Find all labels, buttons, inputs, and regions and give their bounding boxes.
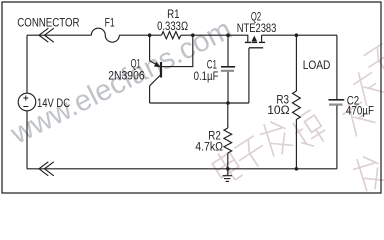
- wire R3 to bottom rail: [295, 120, 297, 169]
- wire Q2 drain to output node: [262, 34, 337, 36]
- junction node A R1 left: [148, 33, 152, 37]
- junction node B R1 right: [191, 33, 195, 37]
- svg-text:0.1µF: 0.1µF: [194, 69, 219, 83]
- wire right branch down to C2: [336, 35, 338, 99]
- wire R2 to bottom rail: [227, 153, 229, 169]
- wire R1 to Q2 source: [181, 34, 248, 36]
- watermark chinese characters diagonal run: [209, 95, 376, 185]
- svg-text:F1: F1: [105, 15, 115, 29]
- wire fuse to node A: [119, 34, 161, 36]
- fuse F1: [91, 28, 119, 42]
- svg-text:2N3906: 2N3906: [108, 68, 144, 82]
- transistor Q1 emitter arrow: [154, 62, 161, 67]
- connector input arrow top: [39, 28, 54, 42]
- wire bottom rail: [27, 168, 337, 170]
- wire C2 to bottom rail: [336, 105, 338, 169]
- watermark chinese characters right edge partials: [349, 42, 384, 194]
- resistor R1: [162, 32, 181, 39]
- svg-text:4.7kΩ: 4.7kΩ: [195, 140, 223, 154]
- svg-text:10Ω: 10Ω: [267, 103, 290, 117]
- svg-text:NTE2383: NTE2383: [237, 21, 277, 35]
- ground: [223, 169, 233, 182]
- transistor Q1 collector lead: [150, 75, 161, 104]
- wire left branch down to source: [26, 35, 28, 93]
- wire node B down to C1: [227, 35, 229, 66]
- svg-text:LOAD: LOAD: [303, 58, 331, 72]
- capacitor C1: [221, 67, 235, 71]
- wire Q2 gate lead down: [248, 48, 250, 103]
- source V1 14V DC: [18, 93, 36, 111]
- wire output node down to R3: [295, 35, 297, 91]
- junction C1 bottom rail: [226, 101, 230, 105]
- wire lower rail collector to gate: [150, 102, 249, 104]
- junction C1 top: [226, 33, 230, 37]
- transistor Q1 emitter lead: [150, 35, 161, 67]
- wire lower rail down to R2: [227, 103, 229, 128]
- svg-text:CONNECTOR: CONNECTOR: [17, 15, 79, 29]
- connector return arrow bottom: [39, 162, 54, 176]
- transistor Q2 body arrow: [252, 36, 258, 42]
- wire top rail left segment: [27, 34, 91, 36]
- svg-text:470µF: 470µF: [346, 103, 374, 117]
- resistor R3: [293, 91, 301, 120]
- wire Q1 base to node B: [162, 35, 193, 66]
- watermark www.elecfans.com diagonal: [5, 13, 237, 151]
- svg-text:0.333Ω: 0.333Ω: [157, 19, 188, 33]
- junction R3 bottom: [295, 167, 299, 171]
- transistor Q1 base bar: [160, 62, 162, 78]
- resistor R2: [224, 128, 232, 153]
- junction ground node: [226, 167, 230, 171]
- junction output node: [295, 33, 299, 37]
- wire C1 to lower rail: [227, 72, 229, 104]
- wire source to bottom rail: [26, 111, 28, 169]
- transistor Q2 mosfet body: [245, 35, 265, 48]
- capacitor C2: [329, 100, 345, 105]
- svg-text:14V DC: 14V DC: [37, 96, 70, 110]
